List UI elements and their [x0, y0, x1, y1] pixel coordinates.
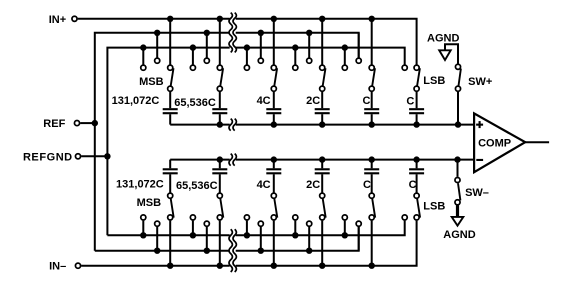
- svg-text:65,536C: 65,536C: [176, 180, 218, 192]
- wire S4T REFGND stub: [294, 48, 296, 65]
- junction S4T IN+ rail: [319, 16, 325, 22]
- svg-text:C: C: [406, 96, 414, 108]
- wire COMP output: [525, 141, 549, 143]
- capacitor C3B 4C bottom: [266, 160, 281, 193]
- junction bottom rail: [271, 156, 277, 162]
- svg-text:LSB: LSB: [423, 75, 445, 87]
- wire S2B REFGND stub: [192, 221, 194, 236]
- junction S3T REFGND bus: [244, 44, 250, 50]
- wire S3T IN+ drop: [273, 19, 275, 65]
- svg-text:4C: 4C: [257, 179, 271, 191]
- junction REFGND vertical: [104, 153, 110, 159]
- junction S1T REF bus: [154, 30, 160, 36]
- svg-text:REFGND: REFGND: [23, 151, 73, 163]
- junction S2B IN- rail: [217, 263, 223, 269]
- wire S3T REFGND stub: [246, 48, 248, 65]
- svg-text:COMP: COMP: [478, 138, 511, 150]
- wire S1T REFGND stub: [142, 48, 144, 65]
- junction S2B REFGND bus: [190, 232, 196, 238]
- wire S5T REFGND stub: [344, 48, 346, 65]
- break mark top buses: [229, 13, 236, 53]
- svg-text:MSB: MSB: [139, 76, 164, 88]
- break mark bottom rail: [229, 154, 236, 166]
- junction S4B IN- rail: [319, 263, 325, 269]
- svg-text:SW–: SW–: [465, 187, 489, 199]
- junction SW- on bottom rail: [454, 156, 460, 162]
- wire S4B IN- drop: [321, 221, 323, 266]
- junction top rail: [413, 121, 419, 127]
- node IN+ terminal: [72, 16, 77, 21]
- svg-text:REF: REF: [43, 118, 65, 130]
- junction S5B REFGND bus: [342, 232, 348, 238]
- junction S3B REF bus: [258, 248, 264, 254]
- junction S2B REF bus: [204, 248, 210, 254]
- break mark top rail: [229, 119, 236, 131]
- switch S1B: [141, 193, 174, 226]
- wire S2T REF stub: [206, 33, 208, 58]
- svg-text:IN+: IN+: [49, 14, 66, 26]
- wire S1T REF stub: [156, 33, 158, 58]
- junction S5T REFGND bus: [342, 44, 348, 50]
- wire SW- to rail: [457, 160, 459, 177]
- wire S5T REF stub: [358, 33, 360, 58]
- svg-text:AGND: AGND: [427, 32, 459, 44]
- capacitor C2T 65,536C top: [212, 92, 227, 125]
- capacitor C4B 2C bottom: [315, 160, 330, 193]
- wire S3B REFGND stub: [246, 221, 248, 236]
- svg-text:C: C: [363, 95, 371, 107]
- junction S5B IN- rail: [369, 263, 375, 269]
- junction top rail: [319, 121, 325, 127]
- svg-text:2C: 2C: [306, 95, 320, 107]
- junction bottom rail: [217, 156, 223, 162]
- wire S2B REF stub: [206, 227, 208, 251]
- wire S3T REF stub: [260, 33, 262, 58]
- svg-text:C: C: [363, 179, 371, 191]
- wire S5B IN- drop: [371, 221, 373, 266]
- node REFGND terminal: [75, 154, 80, 159]
- capacitor C6B C bottom (LSB): [409, 160, 424, 193]
- ground AGND top: [439, 50, 451, 60]
- comparator U1 COMP: [474, 113, 525, 172]
- wire REFGND terminal to bus vertical: [81, 155, 107, 157]
- svg-text:65,536C: 65,536C: [174, 97, 216, 109]
- wire REFGND bus top (vertical + horizontal): [107, 48, 404, 236]
- switch S4T: [293, 58, 326, 91]
- wire S2T IN+ drop: [219, 19, 221, 65]
- capacitor C2B 65,536C bottom: [212, 160, 227, 193]
- wire S1B IN- drop: [169, 221, 171, 266]
- switch S3B: [244, 193, 277, 226]
- junction bottom rail: [413, 156, 419, 162]
- junction S2T REFGND bus: [190, 44, 196, 50]
- svg-text:131,072C: 131,072C: [112, 95, 160, 107]
- junction S1B REF bus: [154, 248, 160, 254]
- switch S5B: [342, 193, 375, 226]
- switch S2T: [190, 58, 223, 91]
- wire S1T IN+ drop: [169, 19, 171, 65]
- switch S3T: [244, 58, 277, 91]
- junction top rail: [369, 121, 375, 127]
- svg-text:2C: 2C: [306, 179, 320, 191]
- junction bottom rail: [319, 156, 325, 162]
- switch S5T: [342, 58, 375, 91]
- switch SW-: [455, 177, 460, 204]
- capacitor C1T 131,072C top: [163, 92, 178, 125]
- wire IN+ rail: [78, 19, 417, 65]
- switch S6T (LSB): [402, 65, 420, 91]
- junction S3B IN- rail: [271, 263, 277, 269]
- wire S5B REFGND stub: [344, 221, 346, 236]
- break mark bottom buses: [229, 229, 236, 272]
- wire S1B REFGND stub: [142, 221, 144, 236]
- switch S6B (LSB): [402, 193, 420, 220]
- junction S3B REFGND bus: [244, 232, 250, 238]
- wire REFGND bus bottom: [107, 221, 404, 236]
- wire bottom common rail to COMP-: [170, 159, 474, 161]
- wire S5B REF stub: [358, 227, 360, 251]
- capacitor C4T 2C top: [315, 92, 330, 125]
- wire S2B IN- drop: [219, 221, 221, 266]
- junction S2T IN+ rail: [217, 16, 223, 22]
- switch S2B: [190, 193, 223, 226]
- ground AGND bottom: [452, 206, 464, 226]
- wire REF terminal to bus vertical: [80, 122, 95, 124]
- svg-text:SW+: SW+: [468, 76, 492, 88]
- junction SW+ on top rail: [455, 121, 461, 127]
- svg-text:LSB: LSB: [423, 201, 445, 213]
- wire REF bus top (vertical + horizontal): [95, 33, 359, 251]
- junction S4B REFGND bus: [292, 232, 298, 238]
- wire S3B IN- drop: [273, 221, 275, 266]
- wire S1B REF stub: [156, 227, 158, 251]
- node IN- terminal: [75, 263, 80, 268]
- junction S1T REFGND bus: [140, 44, 146, 50]
- wire S4T REF stub: [308, 33, 310, 58]
- junction S4T REF bus: [306, 30, 312, 36]
- svg-text:IN–: IN–: [49, 261, 66, 273]
- switch S1T: [141, 58, 174, 91]
- junction S1T IN+ rail: [167, 16, 173, 22]
- wire top common rail to COMP+: [170, 124, 474, 126]
- wire S4T IN+ drop: [321, 19, 323, 65]
- capacitor C3T 4C top: [266, 92, 281, 125]
- wire S2T REFGND stub: [192, 48, 194, 65]
- wire S4B REFGND stub: [294, 221, 296, 236]
- wire S3B REF stub: [260, 227, 262, 251]
- switch S4B: [293, 193, 326, 226]
- junction REF vertical: [92, 120, 98, 126]
- wire SW+ to rail: [457, 92, 459, 125]
- svg-text:4C: 4C: [257, 95, 271, 107]
- junction top rail: [271, 121, 277, 127]
- wire REF bus bottom: [95, 227, 359, 251]
- svg-text:AGND: AGND: [443, 229, 475, 241]
- junction S1B REFGND bus: [140, 232, 146, 238]
- junction S1B IN- rail: [167, 263, 173, 269]
- svg-text:C: C: [409, 179, 417, 191]
- svg-text:MSB: MSB: [137, 197, 162, 209]
- node REF terminal: [74, 121, 79, 126]
- junction S3T IN+ rail: [271, 16, 277, 22]
- junction S3T REF bus: [258, 30, 264, 36]
- wire S4B REF stub: [308, 227, 310, 251]
- junction top rail: [217, 121, 223, 127]
- wire S5T IN+ drop: [371, 19, 373, 65]
- svg-text:131,072C: 131,072C: [116, 179, 164, 191]
- junction bottom rail: [369, 156, 375, 162]
- capacitor C5B C bottom: [364, 160, 379, 193]
- capacitor C6T C top (LSB): [409, 92, 424, 125]
- junction S4B REF bus: [306, 248, 312, 254]
- junction S5T IN+ rail: [369, 16, 375, 22]
- junction S2T REF bus: [204, 30, 210, 36]
- capacitor C5T C top: [364, 92, 379, 125]
- wire IN- rail: [81, 221, 416, 266]
- capacitor C1B 131,072C bottom: [163, 160, 178, 193]
- wire SW+ to AGND: [445, 44, 458, 63]
- junction S4T REFGND bus: [292, 44, 298, 50]
- switch SW+: [455, 64, 460, 91]
